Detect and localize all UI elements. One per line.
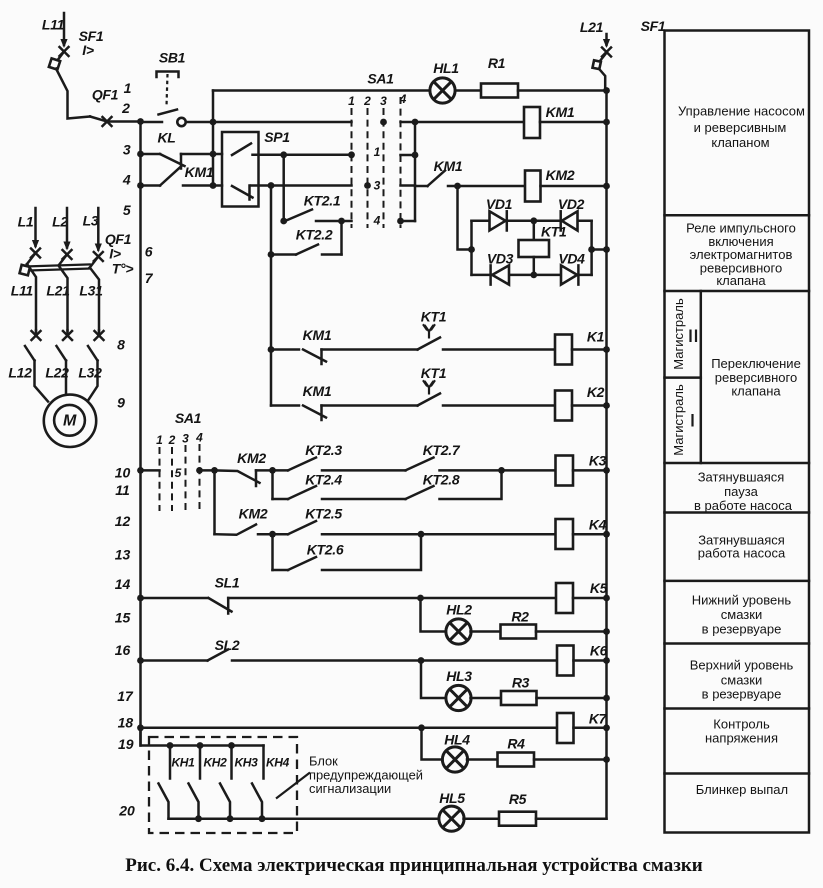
contact SP1 lower (NC blade) [232, 186, 253, 200]
wire R4 to bus [534, 758, 607, 761]
table row divider 5 [665, 580, 810, 583]
svg-text:15: 15 [115, 609, 131, 625]
svg-text:клапана: клапана [731, 384, 781, 399]
svg-text:4: 4 [195, 431, 203, 445]
contact KT2.7 (NO) [406, 458, 434, 471]
wire row19 [141, 728, 264, 746]
junction QF1/bus [137, 118, 144, 125]
ANNOT-SA1LOWER [137, 410, 218, 511]
svg-text:K1: K1 [587, 329, 605, 345]
svg-text:3: 3 [374, 179, 381, 193]
svg-text:QF1: QF1 [92, 87, 119, 103]
contact KT2.4 (NO) [288, 486, 316, 499]
wire row10 a [256, 469, 288, 472]
vertical KT2.1/KT2.2 tie [340, 221, 343, 255]
contact KL (NC blade) [160, 154, 185, 169]
svg-text:KM1: KM1 [434, 158, 463, 174]
svg-text:SA1: SA1 [367, 71, 394, 87]
SA1 lower dashed columns [159, 447, 161, 511]
ANNOT-TABLE [641, 18, 809, 833]
svg-text:1: 1 [156, 433, 163, 447]
svg-text:18: 18 [118, 714, 134, 730]
wire row8 middle [322, 348, 418, 351]
svg-text:8: 8 [117, 337, 125, 353]
svg-text:KT2.1: KT2.1 [304, 193, 341, 209]
ANNOT-VDBRIDGE [458, 186, 610, 285]
table sub-row divider (Magistral I/II) [665, 376, 701, 379]
svg-text:KT1: KT1 [541, 224, 567, 240]
svg-text:Контроль: Контроль [713, 717, 770, 732]
circuit breaker SF1 [57, 53, 64, 62]
svg-text:3: 3 [380, 94, 387, 108]
wire QF1 to left bus [107, 120, 141, 123]
table row divider 4 [665, 511, 810, 514]
svg-text:6: 6 [145, 244, 153, 260]
circuit breaker SF1 pole 2 [600, 54, 606, 62]
wire line4 to node [183, 184, 222, 187]
SA1 output ticks [401, 121, 416, 124]
svg-text:Верхний уровень: Верхний уровень [690, 657, 794, 672]
svg-text:SA1: SA1 [175, 410, 202, 426]
pointer line to label [276, 773, 310, 799]
table row divider 3 [665, 462, 810, 465]
wire row14 left [141, 597, 208, 600]
diode bridge top rail [472, 220, 592, 223]
wire row13 b and riser [322, 534, 421, 570]
svg-text:T°>: T°> [112, 261, 134, 277]
svg-text:5: 5 [175, 466, 182, 480]
wire KM2-line down to bridge [458, 186, 472, 250]
table row divider 2 [665, 290, 810, 293]
svg-text:Затянувшаяся: Затянувшаяся [698, 470, 785, 485]
svg-text:KT1: KT1 [421, 365, 447, 381]
svg-text:16: 16 [115, 642, 131, 658]
diode VD2 [562, 211, 578, 230]
coil KM1 [524, 107, 540, 138]
wire row11 b [322, 498, 406, 501]
svg-text:10: 10 [115, 465, 131, 481]
diode bridge left rail [470, 221, 473, 275]
SA1 output rail (bracket) [414, 122, 417, 221]
svg-text:K3: K3 [589, 453, 607, 469]
svg-text:2: 2 [168, 433, 176, 447]
wire line2 SB1 to node [186, 121, 213, 124]
wire bridge to bus [592, 248, 607, 251]
wire L1 lead [34, 208, 37, 246]
wire row10 b [322, 469, 406, 472]
contact KT1 row9 (NO, delayed) [418, 394, 441, 406]
svg-text:K4: K4 [589, 517, 607, 533]
node vertical (lines 1-4 tie) [212, 91, 215, 186]
svg-text:1: 1 [374, 145, 381, 159]
svg-text:K6: K6 [590, 643, 608, 659]
branch HL3 drop [421, 661, 447, 699]
svg-text:19: 19 [118, 736, 134, 752]
wire SP1 lower output [251, 184, 352, 187]
wire row16 left [141, 659, 208, 662]
coil KT1 [519, 240, 550, 257]
branch HL4 drop [422, 728, 444, 760]
lamp HL4 [442, 747, 467, 772]
contact KT2.2 (NO) [296, 245, 318, 255]
wire KT2.1 output [316, 220, 352, 223]
svg-text:HL2: HL2 [446, 602, 472, 618]
wire K1 to bus [572, 348, 607, 351]
wire line2 left segment [141, 121, 163, 124]
svg-text:KM1: KM1 [303, 383, 332, 399]
terminal X L21 [601, 47, 612, 58]
wire HL2 to R2 [471, 630, 501, 633]
svg-text:HL1: HL1 [433, 60, 459, 76]
wire L21 lead [605, 34, 608, 45]
svg-text:напряжения: напряжения [705, 731, 778, 746]
svg-text:I>: I> [82, 42, 94, 58]
svg-text:KT1: KT1 [421, 309, 447, 325]
svg-text:4: 4 [373, 214, 381, 228]
SA1 contact dots [380, 119, 387, 126]
svg-text:9: 9 [117, 394, 125, 410]
wire KT2.2 output [322, 253, 342, 256]
svg-text:L11: L11 [42, 17, 65, 33]
svg-text:KT2.3: KT2.3 [305, 442, 342, 458]
wire to motor 3 [88, 361, 98, 401]
wire row11 a [273, 498, 289, 501]
svg-text:M: M [63, 412, 77, 429]
relay coil K3 [556, 456, 574, 486]
wire R1 to right bus [518, 89, 607, 92]
contactor KM1 pole blades [25, 346, 35, 361]
svg-text:SF1: SF1 [641, 18, 666, 34]
wire pole 1 [27, 264, 36, 331]
wire row9 left segment [271, 404, 299, 407]
svg-text:R3: R3 [512, 675, 530, 691]
svg-text:K5: K5 [590, 580, 608, 596]
wire K4 to bus [573, 533, 607, 536]
svg-text:KH1: KH1 [171, 756, 195, 770]
svg-text:5: 5 [123, 202, 131, 218]
wire KM2 coil to bus [541, 185, 607, 188]
svg-text:KT2.2: KT2.2 [296, 227, 333, 243]
contact KH1 [159, 746, 171, 819]
table sub-column divider (Magistral) [700, 291, 703, 463]
svg-text:KM1: KM1 [303, 327, 332, 343]
wire row18 [141, 727, 558, 730]
contact KT1 row8 (NO, delayed) [418, 338, 441, 350]
box SP1 [222, 132, 259, 207]
svg-text:клапана: клапана [716, 273, 766, 288]
svg-text:пауза: пауза [724, 484, 759, 499]
junction bus/line3 [137, 151, 144, 158]
motor M [44, 395, 96, 447]
contact KT2.5 (NO) [288, 521, 316, 534]
wire HL4 to R4 [467, 758, 498, 761]
wire pole 3 [90, 268, 99, 331]
wire line2 stub to SA1 [213, 121, 352, 124]
svg-text:KL: KL [157, 130, 175, 146]
breaker QF1 pole blades [27, 253, 36, 264]
coil KM2 [525, 171, 541, 202]
contact KT2.6 (NO) [288, 557, 316, 570]
svg-text:KM2: KM2 [546, 167, 575, 183]
ANNOT-NUMBERS [115, 142, 154, 819]
svg-text:20: 20 [118, 803, 135, 819]
contact KM1 row8 (NC blade) [303, 350, 326, 365]
junction bus/line4 [137, 182, 144, 189]
diode bridge right rail [590, 221, 593, 275]
svg-text:KT2.7: KT2.7 [423, 442, 461, 458]
svg-text:L1: L1 [18, 214, 34, 230]
svg-text:Блок: Блок [309, 754, 338, 769]
wire line3 left segment [141, 153, 161, 156]
pushbutton SB1 contact blade [159, 110, 178, 115]
wire HL3 to R3 [471, 697, 502, 700]
wire line3 to node [181, 153, 222, 156]
wire KT1 coil to bottom rail [533, 257, 536, 275]
contact KM1 (NO blade) [428, 171, 446, 187]
svg-text:KT2.5: KT2.5 [305, 506, 342, 522]
svg-text:работа насоса: работа насоса [698, 546, 786, 561]
wire pole 2 [59, 266, 68, 331]
wire HL1 to R1 [455, 89, 481, 92]
wire K5 to bus [573, 597, 607, 600]
wire line 1 (top rail to HL1) [213, 89, 430, 92]
wire row8 to K1 [443, 348, 555, 351]
svg-text:VD1: VD1 [486, 196, 513, 212]
wire SA1 col4 to node [200, 469, 215, 472]
ANNOT-TOPLEFT [42, 13, 612, 819]
wire row9 middle [322, 404, 418, 407]
svg-text:17: 17 [117, 688, 134, 704]
pushbutton SB1 actuator [157, 72, 179, 78]
svg-text:KT2.6: KT2.6 [307, 542, 344, 558]
wire L3 lead [97, 208, 100, 250]
wire R5 to bus [536, 817, 607, 820]
wire row16 right [232, 659, 557, 662]
wire row8 left segment [271, 348, 299, 351]
ANNOT-KHBLOCK [141, 728, 607, 833]
svg-text:в резервуаре: в резервуаре [702, 622, 782, 637]
contact SL2 (NO blade) [208, 650, 229, 661]
breaker contact QF1 [90, 117, 107, 122]
relay coil K5 [556, 583, 573, 613]
svg-text:2: 2 [363, 94, 371, 108]
wire K3 to bus [573, 469, 607, 472]
diode VD3 [492, 265, 509, 284]
branch HL2 drop [421, 598, 447, 632]
junction KH3 top [228, 742, 235, 749]
ANNOT-SP1-SA1 [213, 71, 418, 406]
SA1 dashed column 1 [351, 108, 353, 228]
contact KT2.3 (NO) [288, 458, 316, 471]
svg-text:KH2: KH2 [203, 756, 227, 770]
svg-text:KT2.4: KT2.4 [305, 472, 342, 488]
breaker QF1 linkage bar [25, 264, 91, 266]
wire row20 [169, 817, 440, 820]
wire row11 c and riser [440, 470, 502, 499]
wire bracket to KM1 coil [415, 121, 524, 124]
dashed box warning block [149, 737, 297, 833]
svg-text:1: 1 [348, 94, 355, 108]
svg-text:HL5: HL5 [439, 790, 465, 806]
svg-text:K2: K2 [587, 384, 605, 400]
wire to motor 2 [65, 361, 68, 395]
wire KT2.2 left [271, 253, 296, 256]
table row divider 6 [665, 642, 810, 645]
ANNOT-ROWS14-18 [137, 575, 610, 773]
resistor R3 [501, 691, 537, 705]
contact KM1 row9 (NC blade) [303, 406, 326, 421]
svg-text:сигнализации: сигнализации [309, 781, 391, 796]
svg-text:R2: R2 [511, 609, 529, 625]
lamp HL2 [446, 619, 471, 644]
relay coil K7 [557, 713, 574, 743]
contact KT2.8 (NO) [406, 486, 434, 499]
wire to KT1 coil [533, 221, 536, 240]
vertical row10-row11 [271, 470, 274, 499]
SA1 dashed column 4 [400, 97, 402, 228]
svg-text:4: 4 [122, 172, 131, 188]
vertical row10-row12 [213, 470, 216, 534]
svg-text:VD2: VD2 [558, 196, 585, 212]
svg-text:KM2: KM2 [237, 450, 266, 466]
svg-text:Нижний уровень: Нижний уровень [692, 593, 792, 608]
contact KH3 [220, 746, 232, 819]
svg-text:7: 7 [145, 270, 154, 286]
table row divider 8 [665, 772, 810, 775]
svg-text:K7: K7 [589, 711, 608, 727]
lamp HL5 [439, 806, 464, 831]
contact circle SB1 [177, 118, 185, 126]
svg-text:KM2: KM2 [239, 506, 268, 522]
svg-text:KH3: KH3 [234, 756, 258, 770]
svg-text:HL4: HL4 [444, 732, 470, 748]
svg-text:12: 12 [115, 513, 131, 529]
ANNOT-ROWS89 [268, 309, 610, 421]
wire K6 to bus [574, 659, 607, 662]
relay coil K1 [555, 335, 572, 365]
wire row13 a [273, 569, 289, 572]
ANNOT-KM1KM2 [415, 104, 610, 202]
svg-text:VD4: VD4 [558, 251, 585, 267]
relay coil K4 [556, 519, 574, 549]
wire row12 b [322, 533, 556, 536]
left vertical bus [139, 122, 142, 746]
wire SF1 to QF1 [56, 69, 90, 119]
svg-text:SL1: SL1 [215, 575, 240, 591]
junction bridge top center [530, 217, 537, 224]
function table outer frame [665, 31, 810, 833]
svg-text:в резервуаре: в резервуаре [702, 687, 782, 702]
table row divider 1 [665, 214, 810, 217]
relay coil K2 [555, 391, 572, 421]
svg-text:в работе насоса: в работе насоса [694, 498, 793, 513]
svg-text:14: 14 [115, 576, 131, 592]
svg-text:KH4: KH4 [266, 756, 290, 770]
long vertical line4 to rows 8-9 [270, 186, 273, 406]
resistor R2 [501, 625, 537, 639]
wire row10 c [440, 469, 556, 472]
wire line10 stub [141, 469, 160, 472]
svg-text:R4: R4 [507, 736, 525, 752]
right vertical bus [605, 91, 608, 819]
SA1 dashed column 2 [367, 108, 369, 228]
svg-text:I>: I> [109, 246, 121, 262]
contact KM2 row12 (NO blade) [215, 525, 257, 535]
contact KH4 [252, 746, 264, 819]
svg-text:L21: L21 [580, 19, 604, 35]
vertical to KT2.1 [282, 155, 285, 221]
svg-text:3: 3 [123, 142, 131, 158]
junction KH2 top [197, 742, 204, 749]
svg-text:R5: R5 [509, 791, 527, 807]
contact KM1 (NO blade) [160, 166, 182, 186]
svg-text:2: 2 [121, 100, 130, 116]
table row divider 7 [665, 707, 810, 710]
svg-text:KM1: KM1 [546, 104, 575, 120]
wire L2 lead [66, 208, 69, 248]
resistor R1 [481, 84, 518, 98]
svg-text:SB1: SB1 [159, 50, 186, 66]
svg-text:11: 11 [115, 482, 130, 498]
wire bracket to KM2 coil [415, 185, 428, 188]
wire R2 to bus [536, 630, 607, 633]
diode VD4 [561, 265, 577, 284]
svg-text:L3: L3 [83, 213, 99, 229]
svg-text:L12: L12 [8, 365, 32, 381]
wire row14 right [228, 597, 556, 600]
svg-text:HL3: HL3 [446, 668, 472, 684]
wire K2 to bus [572, 404, 607, 407]
vertical row12-row13 [271, 534, 274, 570]
svg-text:KM1: KM1 [185, 164, 214, 180]
contact SL1 (NC blade) [209, 598, 232, 614]
svg-text:клапаном: клапаном [711, 135, 769, 150]
terminal X row 2 [31, 330, 42, 341]
svg-text:3: 3 [182, 432, 189, 446]
ANNOT-ROWS10-13 [215, 442, 610, 570]
svg-text:Магистраль: Магистраль [671, 298, 686, 370]
wire row9 to K2 [443, 404, 555, 407]
relay coil K6 [557, 646, 574, 676]
svg-text:смазки: смазки [721, 672, 762, 687]
svg-text:13: 13 [115, 547, 131, 563]
svg-text:и реверсивным: и реверсивным [694, 120, 787, 135]
wire row12 a [258, 533, 288, 536]
SA1 dashed column 3 [383, 108, 385, 228]
contact KT2.1 (NO) [285, 210, 312, 222]
svg-text:1: 1 [124, 80, 132, 96]
diode bridge bottom rail [472, 274, 592, 277]
SA1 lower contact dot [196, 467, 203, 474]
svg-text:Магистраль: Магистраль [671, 384, 686, 456]
resistor R4 [498, 753, 535, 767]
svg-text:Управление насосом: Управление насосом [678, 103, 805, 118]
svg-text:Переключение: Переключение [711, 356, 801, 371]
wire R3 to bus [537, 697, 607, 700]
junction KH1 top [167, 742, 174, 749]
wire KM1 coil to bus [540, 121, 607, 124]
svg-text:Рис. 6.4. Схема электрическая: Рис. 6.4. Схема электрическая принципнал… [125, 855, 703, 876]
contact KH2 [189, 746, 201, 819]
svg-text:R1: R1 [488, 55, 506, 71]
svg-text:Блинкер выпал: Блинкер выпал [696, 782, 788, 797]
diode VD1 [490, 211, 506, 230]
terminal X L11 [59, 46, 70, 57]
wire SP1 upper output [253, 154, 352, 157]
svg-text:смазки: смазки [721, 607, 762, 622]
contact SP1 upper (NO blade) [232, 144, 251, 156]
lamp HL1 [430, 78, 455, 103]
